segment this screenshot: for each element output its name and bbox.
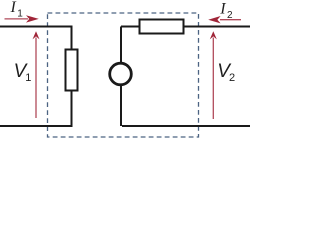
svg-text:1: 1 (25, 72, 31, 84)
svg-text:I: I (10, 0, 17, 16)
svg-text:1: 1 (17, 9, 23, 20)
svg-text:I: I (219, 1, 226, 18)
svg-text:2: 2 (229, 72, 235, 84)
svg-text:2: 2 (227, 10, 233, 21)
